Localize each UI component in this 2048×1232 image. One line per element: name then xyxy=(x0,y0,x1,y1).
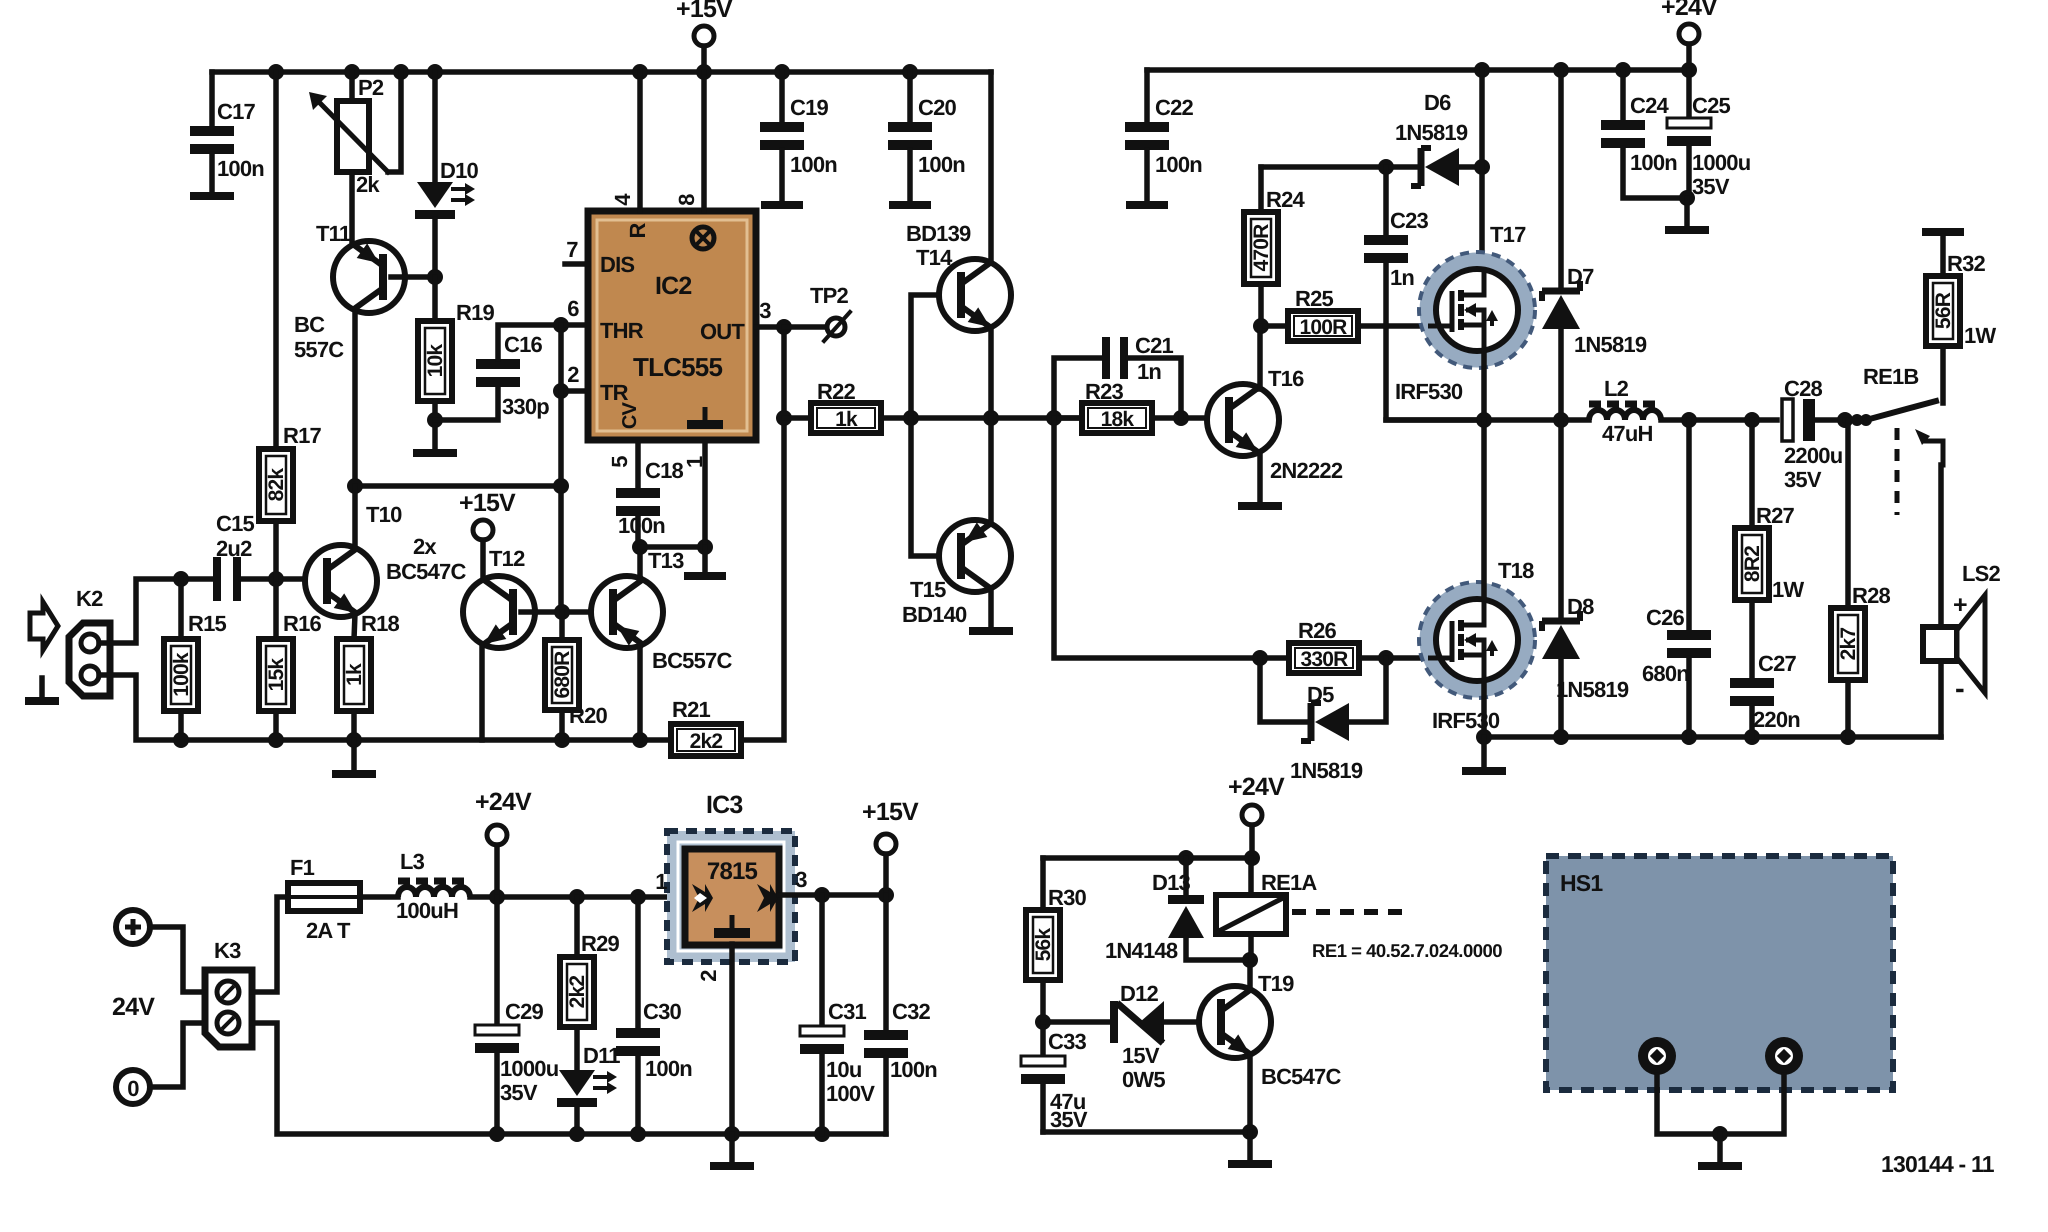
IC2 pin7 stub xyxy=(565,261,588,267)
ground xyxy=(190,192,234,200)
svg-text:+24V: +24V xyxy=(1228,773,1285,801)
ground xyxy=(351,740,357,770)
wire T13 top xyxy=(637,547,643,580)
resistor R29 xyxy=(574,897,580,957)
svg-text:C17: C17 xyxy=(217,99,256,124)
ground xyxy=(432,420,438,449)
inductor L3 xyxy=(398,887,470,897)
input arrow xyxy=(30,602,58,650)
wire P2 to T11 xyxy=(349,172,355,243)
zener diode D12 xyxy=(1043,1019,1114,1025)
svg-text:BC: BC xyxy=(294,312,325,337)
resistor R25 xyxy=(1261,323,1288,329)
diode D6 1N5819 xyxy=(1386,164,1416,170)
svg-text:TLC555: TLC555 xyxy=(633,352,722,382)
ground bus PSU xyxy=(489,1126,505,1142)
capacitor C28 xyxy=(1782,399,1793,441)
svg-text:2: 2 xyxy=(696,970,721,982)
potentiometer P2 xyxy=(349,72,355,101)
svg-text:D12: D12 xyxy=(1120,981,1159,1006)
capacitor C16 xyxy=(435,387,498,420)
wire T19 collector xyxy=(1247,960,1253,989)
svg-text:R22: R22 xyxy=(817,379,856,404)
svg-text:DIS: DIS xyxy=(600,252,634,277)
svg-text:R21: R21 xyxy=(672,697,711,722)
svg-text:D13: D13 xyxy=(1152,870,1191,895)
svg-text:2x: 2x xyxy=(413,534,437,559)
svg-text:3: 3 xyxy=(759,298,771,323)
svg-text:C32: C32 xyxy=(892,999,931,1024)
svg-text:R17: R17 xyxy=(283,423,322,448)
capacitor C26 xyxy=(1686,420,1692,630)
svg-text:1N5819: 1N5819 xyxy=(1290,758,1363,783)
svg-text:BC547C: BC547C xyxy=(386,559,466,584)
connector K2 xyxy=(69,623,110,696)
+15V supply terminal xyxy=(473,520,493,540)
svg-text:100n: 100n xyxy=(918,152,965,177)
svg-text:24V: 24V xyxy=(112,993,155,1021)
low side gate wire xyxy=(1054,418,1289,658)
resistor R20 xyxy=(559,612,565,640)
svg-text:100n: 100n xyxy=(1630,150,1677,175)
wire input node xyxy=(241,576,307,582)
svg-text:R20: R20 xyxy=(569,703,608,728)
transistor T13 xyxy=(591,576,663,648)
svg-text:18k: 18k xyxy=(1101,408,1135,431)
wire F1 to L3 xyxy=(360,894,398,900)
svg-text:1n: 1n xyxy=(1390,265,1414,290)
svg-text:0: 0 xyxy=(127,1076,139,1101)
svg-text:100n: 100n xyxy=(890,1057,937,1082)
wire T13 bottom xyxy=(637,645,643,740)
ground node bottom line xyxy=(173,732,189,748)
svg-text:T11: T11 xyxy=(316,221,351,246)
svg-text:RE1 = 40.52.7.024.0000: RE1 = 40.52.7.024.0000 xyxy=(1312,940,1502,961)
svg-text:100R: 100R xyxy=(1299,316,1347,339)
wire R25 to gate xyxy=(1358,323,1452,329)
capacitor C29 xyxy=(494,897,500,1025)
svg-text:C23: C23 xyxy=(1390,208,1429,233)
diode D13 1N4148 xyxy=(1183,858,1189,895)
svg-text:C21: C21 xyxy=(1135,333,1174,358)
wire +15V rail xyxy=(212,69,991,75)
svg-text:C27: C27 xyxy=(1758,651,1797,676)
svg-text:OUT: OUT xyxy=(700,319,745,344)
wire 0 to K3 xyxy=(150,1023,205,1087)
svg-text:K2: K2 xyxy=(76,586,103,611)
LED D10 xyxy=(432,72,438,182)
transistor T19 BC547C xyxy=(1199,986,1271,1058)
wire IC2 pin1 xyxy=(702,440,708,547)
terminal + 24V input xyxy=(116,910,150,944)
svg-text:R28: R28 xyxy=(1852,583,1891,608)
resistor R24 xyxy=(1258,167,1264,212)
heatsink HS1 xyxy=(1546,856,1893,1090)
svg-text:T10: T10 xyxy=(366,502,402,527)
svg-text:2200u: 2200u xyxy=(1784,443,1842,468)
svg-text:D6: D6 xyxy=(1424,90,1451,115)
svg-text:IRF530: IRF530 xyxy=(1432,708,1500,733)
svg-text:T14: T14 xyxy=(916,245,953,270)
svg-text:D10: D10 xyxy=(440,158,479,183)
wire K3 to ground line xyxy=(252,1023,886,1134)
svg-text:2: 2 xyxy=(567,362,579,387)
svg-text:F1: F1 xyxy=(290,855,315,880)
ground xyxy=(1247,1132,1253,1160)
inductor L2 xyxy=(1589,410,1661,420)
svg-text:C25: C25 xyxy=(1692,93,1731,118)
svg-text:100k: 100k xyxy=(170,652,193,697)
resistor R23 xyxy=(1054,415,1082,421)
wire T11 base xyxy=(391,274,435,280)
svg-text:C15: C15 xyxy=(216,511,255,536)
svg-text:330R: 330R xyxy=(1300,648,1348,671)
svg-text:R: R xyxy=(625,223,650,239)
resistor R32 xyxy=(1922,228,1964,236)
IC2 pin3 OUT wire xyxy=(756,324,784,330)
wire T16 emitter to ground xyxy=(1257,453,1263,502)
svg-text:2k2: 2k2 xyxy=(690,730,723,753)
ground xyxy=(729,1134,735,1162)
svg-text:C30: C30 xyxy=(643,999,682,1024)
svg-text:2A T: 2A T xyxy=(306,918,351,943)
svg-text:C18: C18 xyxy=(645,458,684,483)
transistor T11 xyxy=(333,241,405,313)
svg-text:100n: 100n xyxy=(1155,152,1202,177)
speaker LS2 xyxy=(1923,627,1957,661)
svg-text:R29: R29 xyxy=(581,931,620,956)
svg-text:3: 3 xyxy=(795,867,807,892)
svg-text:IC3: IC3 xyxy=(706,791,743,819)
svg-text:T17: T17 xyxy=(1490,222,1526,247)
LED D11 xyxy=(574,1027,580,1070)
svg-text:CV: CV xyxy=(619,401,641,429)
svg-text:HS1: HS1 xyxy=(1560,870,1603,896)
svg-text:100n: 100n xyxy=(217,156,264,181)
wire T19 emitter xyxy=(1247,1055,1253,1132)
capacitor C15 xyxy=(213,557,221,601)
resistor R21 xyxy=(671,724,741,756)
relay coil RE1A xyxy=(1248,858,1254,895)
wire T15 emitter to ground xyxy=(988,589,994,627)
wire emitter ground line xyxy=(1043,1129,1250,1135)
svg-text:R27: R27 xyxy=(1756,503,1795,528)
svg-text:L3: L3 xyxy=(400,849,425,874)
svg-text:1N4148: 1N4148 xyxy=(1105,938,1178,963)
svg-text:35V: 35V xyxy=(1050,1107,1088,1132)
capacitor C18 xyxy=(635,440,641,488)
svg-text:1N5819: 1N5819 xyxy=(1395,120,1468,145)
wire +24V rail xyxy=(1147,67,1689,73)
svg-text:1000u: 1000u xyxy=(500,1056,558,1081)
wire T16 collector xyxy=(1257,326,1263,389)
svg-text:D5: D5 xyxy=(1307,682,1334,707)
ground xyxy=(1717,1134,1723,1162)
wire T18 source xyxy=(1481,681,1487,737)
svg-text:35V: 35V xyxy=(500,1080,538,1105)
wire T11 collector xyxy=(352,312,358,486)
resistor R28 xyxy=(1845,420,1851,608)
capacitor C24 xyxy=(1620,70,1626,120)
svg-text:BD139: BD139 xyxy=(906,221,971,246)
svg-text:BC557C: BC557C xyxy=(652,648,732,673)
svg-text:C28: C28 xyxy=(1784,376,1823,401)
capacitor C21 xyxy=(1054,358,1102,418)
wire relay supply xyxy=(1043,855,1252,861)
svg-text:15k: 15k xyxy=(265,658,288,692)
IC3 pin2 wire xyxy=(729,944,735,1134)
svg-text:10u: 10u xyxy=(826,1057,862,1082)
svg-text:T19: T19 xyxy=(1258,971,1294,996)
svg-text:R15: R15 xyxy=(188,611,227,636)
svg-text:+15V: +15V xyxy=(459,489,516,517)
wire L3 to IC3 xyxy=(470,894,685,900)
capacitor C30 xyxy=(635,897,641,1028)
capacitor C20 xyxy=(907,72,913,122)
svg-text:2k: 2k xyxy=(356,172,380,197)
resistor R15 xyxy=(178,579,184,639)
svg-text:THR: THR xyxy=(600,318,644,343)
svg-text:1k: 1k xyxy=(835,408,858,431)
wire output node xyxy=(1386,417,1589,423)
resistor R26 xyxy=(1289,643,1359,673)
wire T10 collector xyxy=(352,486,358,549)
svg-text:R32: R32 xyxy=(1947,251,1986,276)
svg-text:35V: 35V xyxy=(1784,467,1822,492)
svg-text:7: 7 xyxy=(566,237,578,262)
node C18/T13 xyxy=(632,539,648,555)
svg-text:+24V: +24V xyxy=(475,788,532,816)
svg-text:5: 5 xyxy=(607,456,632,468)
svg-text:T15: T15 xyxy=(910,577,946,602)
resistor R19 xyxy=(432,277,438,321)
svg-text:680n: 680n xyxy=(1642,661,1689,686)
svg-text:1N5819: 1N5819 xyxy=(1574,332,1647,357)
test point TP2 xyxy=(784,324,825,330)
capacitor C27 xyxy=(1749,600,1755,678)
svg-text:C33: C33 xyxy=(1048,1029,1087,1054)
capacitor C22 xyxy=(1144,70,1150,122)
svg-text:1N5819: 1N5819 xyxy=(1556,677,1629,702)
svg-text:35V: 35V xyxy=(1692,174,1730,199)
relay contact RE1B xyxy=(1845,417,1862,423)
resistor R30 xyxy=(1040,858,1046,910)
svg-text:R18: R18 xyxy=(361,611,400,636)
capacitor C33 xyxy=(1040,1022,1046,1056)
capacitor C17 xyxy=(209,72,215,126)
wire T10 emitter xyxy=(354,614,355,639)
wire ground bus xyxy=(1484,734,1941,740)
svg-text:C20: C20 xyxy=(918,95,957,120)
svg-text:C19: C19 xyxy=(790,95,829,120)
svg-text:0W5: 0W5 xyxy=(1122,1067,1165,1092)
svg-text:+24V: +24V xyxy=(1661,0,1718,21)
svg-text:T18: T18 xyxy=(1498,558,1534,583)
svg-text:4: 4 xyxy=(610,193,635,206)
svg-text:7815: 7815 xyxy=(707,858,758,885)
svg-text:C22: C22 xyxy=(1155,95,1194,120)
svg-text:R30: R30 xyxy=(1048,885,1087,910)
svg-text:R25: R25 xyxy=(1295,286,1334,311)
wire T18 drain xyxy=(1481,420,1487,599)
svg-text:47uH: 47uH xyxy=(1602,421,1653,446)
+15V supply terminal xyxy=(876,834,896,854)
svg-text:220n: 220n xyxy=(1753,707,1800,732)
svg-text:R16: R16 xyxy=(283,611,322,636)
svg-text:K3: K3 xyxy=(214,938,241,963)
svg-text:D11: D11 xyxy=(583,1043,620,1068)
+24V supply terminal xyxy=(1242,805,1262,825)
svg-text:C29: C29 xyxy=(505,999,544,1024)
svg-text:C24: C24 xyxy=(1630,93,1670,118)
svg-text:100n: 100n xyxy=(618,513,665,538)
+24V supply terminal xyxy=(1679,24,1699,44)
svg-text:1: 1 xyxy=(655,869,667,894)
wire + to K3 xyxy=(150,927,205,992)
ground xyxy=(39,678,45,697)
+15V supply terminal xyxy=(694,26,714,46)
svg-text:1000u: 1000u xyxy=(1692,150,1750,175)
capacitor C31 xyxy=(819,895,825,1026)
capacitor C23 xyxy=(1383,167,1389,235)
resistor R22 xyxy=(776,410,792,426)
svg-text:10k: 10k xyxy=(424,344,447,378)
transistor T15 BD140 xyxy=(911,418,961,556)
IC2 pin8 xyxy=(701,72,707,211)
svg-text:-: - xyxy=(1955,673,1964,705)
svg-text:TP2: TP2 xyxy=(810,283,849,308)
wire T17 source xyxy=(1481,351,1487,420)
svg-text:T16: T16 xyxy=(1268,366,1304,391)
IC2 pin4 xyxy=(637,72,643,211)
wire K2 top pin xyxy=(99,579,215,643)
resistor R16 xyxy=(273,579,279,639)
svg-text:+15V: +15V xyxy=(862,798,919,826)
transistor T16 2N2222 xyxy=(1152,415,1227,421)
svg-text:IC2: IC2 xyxy=(655,272,692,300)
svg-text:2k2: 2k2 xyxy=(566,976,589,1009)
transistor T14 BD139 xyxy=(911,295,961,418)
svg-text:1n: 1n xyxy=(1137,359,1161,384)
wire K3 to F1 xyxy=(252,897,288,992)
node THR pin6 xyxy=(553,317,569,333)
ground xyxy=(1481,737,1487,767)
wire T14 collector xyxy=(988,72,994,262)
wire T12 emitter xyxy=(479,645,485,740)
heatsink pad right xyxy=(1765,1037,1803,1075)
svg-text:R23: R23 xyxy=(1085,379,1124,404)
wire T14 emitter xyxy=(988,328,994,418)
ground xyxy=(1684,198,1690,226)
svg-text:470R: 470R xyxy=(1250,224,1273,272)
wire T15 collector xyxy=(988,418,994,523)
svg-text:100V: 100V xyxy=(826,1081,875,1106)
svg-text:56R: 56R xyxy=(1932,292,1955,329)
svg-text:D8: D8 xyxy=(1567,594,1594,619)
svg-text:+: + xyxy=(1953,591,1967,619)
transistor T10 xyxy=(305,545,377,617)
resistor R17 xyxy=(273,72,279,449)
capacitor C25 xyxy=(1686,70,1692,118)
svg-text:R24: R24 xyxy=(1266,187,1306,212)
svg-text:RE1A: RE1A xyxy=(1261,870,1317,895)
svg-text:1: 1 xyxy=(682,456,707,468)
svg-text:6: 6 xyxy=(567,296,579,321)
svg-text:56k: 56k xyxy=(1032,928,1055,962)
svg-text:8R2: 8R2 xyxy=(1741,546,1764,582)
svg-text:LS2: LS2 xyxy=(1962,561,2001,586)
svg-text:1W: 1W xyxy=(1772,577,1804,602)
wire R22 to bases xyxy=(881,415,1082,421)
resistor R27 xyxy=(1749,420,1755,528)
svg-text:8: 8 xyxy=(674,194,699,206)
svg-text:2u2: 2u2 xyxy=(216,536,252,561)
svg-text:+15V: +15V xyxy=(676,0,733,23)
capacitor C19 xyxy=(779,72,785,122)
capacitor C32 xyxy=(883,895,889,1030)
wire base node xyxy=(521,609,605,615)
diode D5 1N5819 xyxy=(1260,658,1306,722)
svg-text:C26: C26 xyxy=(1646,605,1685,630)
+24V supply terminal xyxy=(487,825,507,845)
svg-text:RE1B: RE1B xyxy=(1863,364,1919,389)
svg-text:TR: TR xyxy=(600,380,629,405)
node TR pin2 xyxy=(553,383,569,399)
svg-text:D7: D7 xyxy=(1567,264,1594,289)
svg-text:82k: 82k xyxy=(265,468,288,502)
svg-text:557C: 557C xyxy=(294,337,344,362)
rail stub xyxy=(702,547,708,572)
svg-text:BD140: BD140 xyxy=(902,602,967,627)
svg-text:BC547C: BC547C xyxy=(1261,1064,1341,1089)
IC3 7815 regulator xyxy=(667,831,795,962)
svg-text:T12: T12 xyxy=(489,546,525,571)
diode D7 1N5819 xyxy=(1558,70,1564,288)
svg-text:100n: 100n xyxy=(790,152,837,177)
svg-text:15V: 15V xyxy=(1122,1043,1160,1068)
svg-text:1k: 1k xyxy=(343,663,366,686)
relay mechanical link xyxy=(1292,909,1404,915)
svg-text:R19: R19 xyxy=(456,300,495,325)
svg-text:2N2222: 2N2222 xyxy=(1270,458,1343,483)
svg-text:R26: R26 xyxy=(1298,618,1337,643)
connector K3 xyxy=(205,970,252,1047)
svg-text:100uH: 100uH xyxy=(396,898,458,923)
svg-text:IRF530: IRF530 xyxy=(1395,379,1463,404)
svg-text:330p: 330p xyxy=(502,394,549,419)
svg-text:P2: P2 xyxy=(358,75,384,100)
svg-text:C31: C31 xyxy=(828,999,867,1024)
wire heatsink ground xyxy=(1657,1075,1784,1134)
heatsink pad left xyxy=(1638,1037,1676,1075)
diode D8 1N5819 xyxy=(1558,420,1564,618)
IC2 TLC555 xyxy=(588,211,756,440)
wire K2 bottom pin xyxy=(99,675,671,740)
svg-text:T13: T13 xyxy=(648,548,684,573)
transistor T17 IRF530 xyxy=(1479,70,1485,269)
terminal 0 xyxy=(116,1070,150,1104)
svg-text:C16: C16 xyxy=(504,332,543,357)
transistor T18 IRF530 xyxy=(1428,591,1526,689)
svg-text:680R: 680R xyxy=(551,651,574,699)
svg-text:100n: 100n xyxy=(645,1056,692,1081)
relay NO contact xyxy=(1915,429,1930,445)
transistor T12 xyxy=(480,540,486,581)
wire T10 collector node xyxy=(355,483,561,489)
IC3 pin3 wire xyxy=(779,892,886,898)
svg-text:130144 - 11: 130144 - 11 xyxy=(1881,1151,1995,1177)
wire node column xyxy=(558,325,564,611)
